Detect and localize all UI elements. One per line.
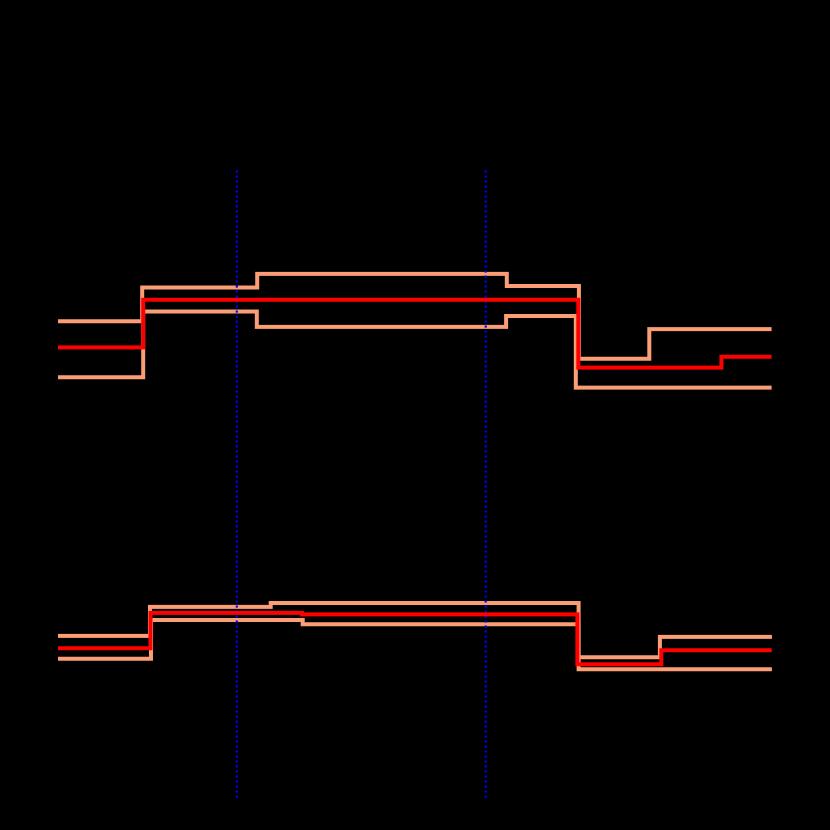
- top panel upper CI step line (salmon): [58, 274, 772, 359]
- right vertical guide (blue dotted): [485, 171, 487, 799]
- bottom panel estimate step line (red): [58, 613, 772, 664]
- bottom panel lower CI step line (salmon): [58, 620, 772, 669]
- top panel estimate step line (red): [58, 300, 772, 368]
- left vertical guide (blue dotted): [236, 171, 238, 799]
- top panel lower CI step line (salmon): [58, 312, 772, 388]
- bottom panel upper CI step line (salmon): [58, 603, 772, 657]
